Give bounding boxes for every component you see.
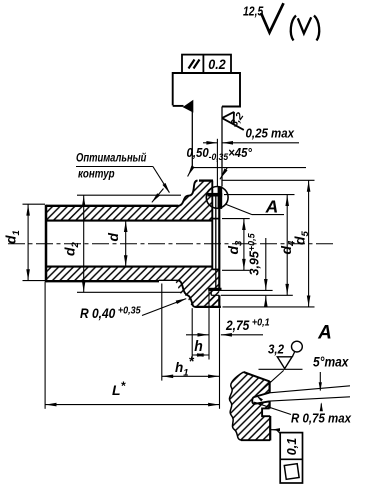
L* dimension line <box>45 404 219 406</box>
lower S-curve to flange bottom <box>178 280 196 307</box>
3.95 lower arrow shaft <box>265 296 267 305</box>
svg-text:Оптимальный: Оптимальный <box>76 151 147 164</box>
d4 extension top (lip outer) <box>224 194 295 196</box>
tube left end face <box>45 205 48 282</box>
tube outer top <box>46 205 178 207</box>
detail leader from shelf into gap <box>257 370 284 394</box>
right face extension down to L* <box>219 308 221 409</box>
crimped lip vertical bar (blackened) <box>218 186 223 209</box>
filled datum triangle <box>183 100 194 113</box>
flatness frame 0,1 (rotated) <box>280 433 302 483</box>
detail roughness shelf <box>259 368 303 370</box>
parallelism tolerance frame //|0.2 <box>182 55 231 73</box>
roughness mark 3,2 <box>222 112 244 130</box>
svg-text:0,25 max: 0,25 max <box>245 126 295 141</box>
roughness checkmark large <box>261 3 284 32</box>
roughness checkmark small in parens <box>298 17 311 33</box>
R 0,75 max leader <box>254 402 291 414</box>
slot left wall (bottom) <box>210 290 212 295</box>
detail hatch region <box>229 372 270 440</box>
0.25 extension (lip tip) <box>216 139 218 186</box>
d1 extension bottom <box>23 280 46 282</box>
right stem line <box>221 107 223 187</box>
svg-text:0,1: 0,1 <box>285 438 299 455</box>
centreline (axis) <box>8 243 333 245</box>
circle stem <box>292 352 295 357</box>
recess bottom edge d3 <box>212 268 219 270</box>
d1 extension top <box>23 203 46 205</box>
3.95 upper arrow shaft <box>265 238 267 290</box>
bore bottom line <box>46 266 212 268</box>
flange right face upper part <box>218 186 220 288</box>
0.25 left shaft <box>203 142 217 144</box>
shoulder line / d2 extension top <box>77 194 181 196</box>
detail: face between gap and slot <box>269 401 271 409</box>
detail: wavy break line <box>229 372 243 440</box>
upper S-curve rise to flange top <box>189 181 198 196</box>
d5 extension top (flange top) <box>223 179 315 181</box>
svg-text:A: A <box>265 197 279 217</box>
optimal contour leader branch <box>152 189 164 203</box>
svg-text:0.2: 0.2 <box>208 56 226 72</box>
section hatch: lower wall and flange bottom <box>46 267 219 307</box>
frame leader <box>277 430 281 434</box>
upper S-curve to shoulder <box>178 196 189 206</box>
svg-text:5°max: 5°max <box>313 354 349 370</box>
flange right face below slot <box>218 295 220 307</box>
tube outer bottom <box>46 280 159 282</box>
block outline <box>173 73 240 107</box>
d dimension line <box>125 221 127 267</box>
3.95 extension / slot upper line <box>221 289 273 291</box>
detail: 5deg lower line <box>270 397 350 401</box>
0.50 chamfer leader shelf <box>192 167 306 169</box>
d2 dimension line <box>83 195 85 292</box>
detail: face above gap <box>269 381 271 393</box>
bottom lip root bar (thick) <box>209 288 221 290</box>
slot bottom edge <box>211 294 219 296</box>
detail: slot <box>262 408 270 416</box>
shoulder line / d2 extension bottom <box>77 291 181 293</box>
bore top line <box>46 220 212 222</box>
2.75 left shaft <box>186 334 209 336</box>
0.25 right shaft / shelf <box>222 142 299 144</box>
bottom thin contour step (optimal contour) <box>159 279 178 281</box>
detail: 5deg upper line <box>270 386 350 393</box>
R0,40 leader line <box>142 299 186 316</box>
5 deg max dimension <box>319 372 321 391</box>
chamfer arrow right <box>220 169 227 179</box>
crimped lip horizontal bar (blackened) <box>208 193 223 197</box>
svg-text:R 0,75 max: R 0,75 max <box>291 411 352 426</box>
detail: face below slot <box>269 416 271 440</box>
detail A leader <box>226 204 252 214</box>
close parenthesis <box>314 16 319 41</box>
svg-text:контур: контур <box>78 168 115 181</box>
parallelism symbol stroke 1 <box>189 60 195 69</box>
d5 dimension line <box>308 180 310 307</box>
d3 extension bottom <box>222 269 250 271</box>
chamfer arrow left <box>188 165 195 176</box>
h1* dimension line <box>162 375 220 377</box>
left stem line <box>191 105 193 167</box>
d1 dimension line <box>27 204 29 280</box>
optimal contour leader <box>153 167 170 193</box>
d4 extension bottom / slot lower line <box>221 294 293 296</box>
flange top face <box>199 179 213 181</box>
detail: crimp gap walls <box>252 393 269 404</box>
roughness triangle <box>277 357 292 369</box>
svg-text:d: d <box>105 233 121 242</box>
svg-text:3,2: 3,2 <box>268 342 284 357</box>
detail marker circle A <box>206 187 228 209</box>
flange bottom face <box>196 306 221 308</box>
d3 dimension line <box>243 219 245 271</box>
h extension (flange left bottom corner) <box>191 308 193 359</box>
d4 dimension line <box>286 195 288 296</box>
d5 extension bottom (flange bottom) <box>223 306 315 308</box>
recess top edge d3 <box>212 218 219 220</box>
svg-text:A: A <box>317 323 332 344</box>
parallelism symbol stroke 2 <box>194 60 200 69</box>
optimal contour underline <box>76 166 153 168</box>
svg-text:12,5: 12,5 <box>243 6 264 19</box>
open parenthesis <box>291 16 296 41</box>
middle vertical (lip inner line) <box>215 196 217 289</box>
h dimension line <box>192 354 208 356</box>
recess floor vertical <box>211 181 213 270</box>
section hatch: upper wall and flange top <box>46 181 212 221</box>
2.75 right shaft <box>221 334 263 336</box>
L* extension left <box>44 282 46 409</box>
svg-text:h: h <box>194 339 203 355</box>
detail: lip top edge <box>244 372 270 381</box>
h / 2.75 extension (slot step) <box>208 291 210 360</box>
h1* extension (contour start) <box>161 284 163 381</box>
d3 extension top <box>222 218 250 220</box>
detail: bottom edge <box>241 439 270 441</box>
